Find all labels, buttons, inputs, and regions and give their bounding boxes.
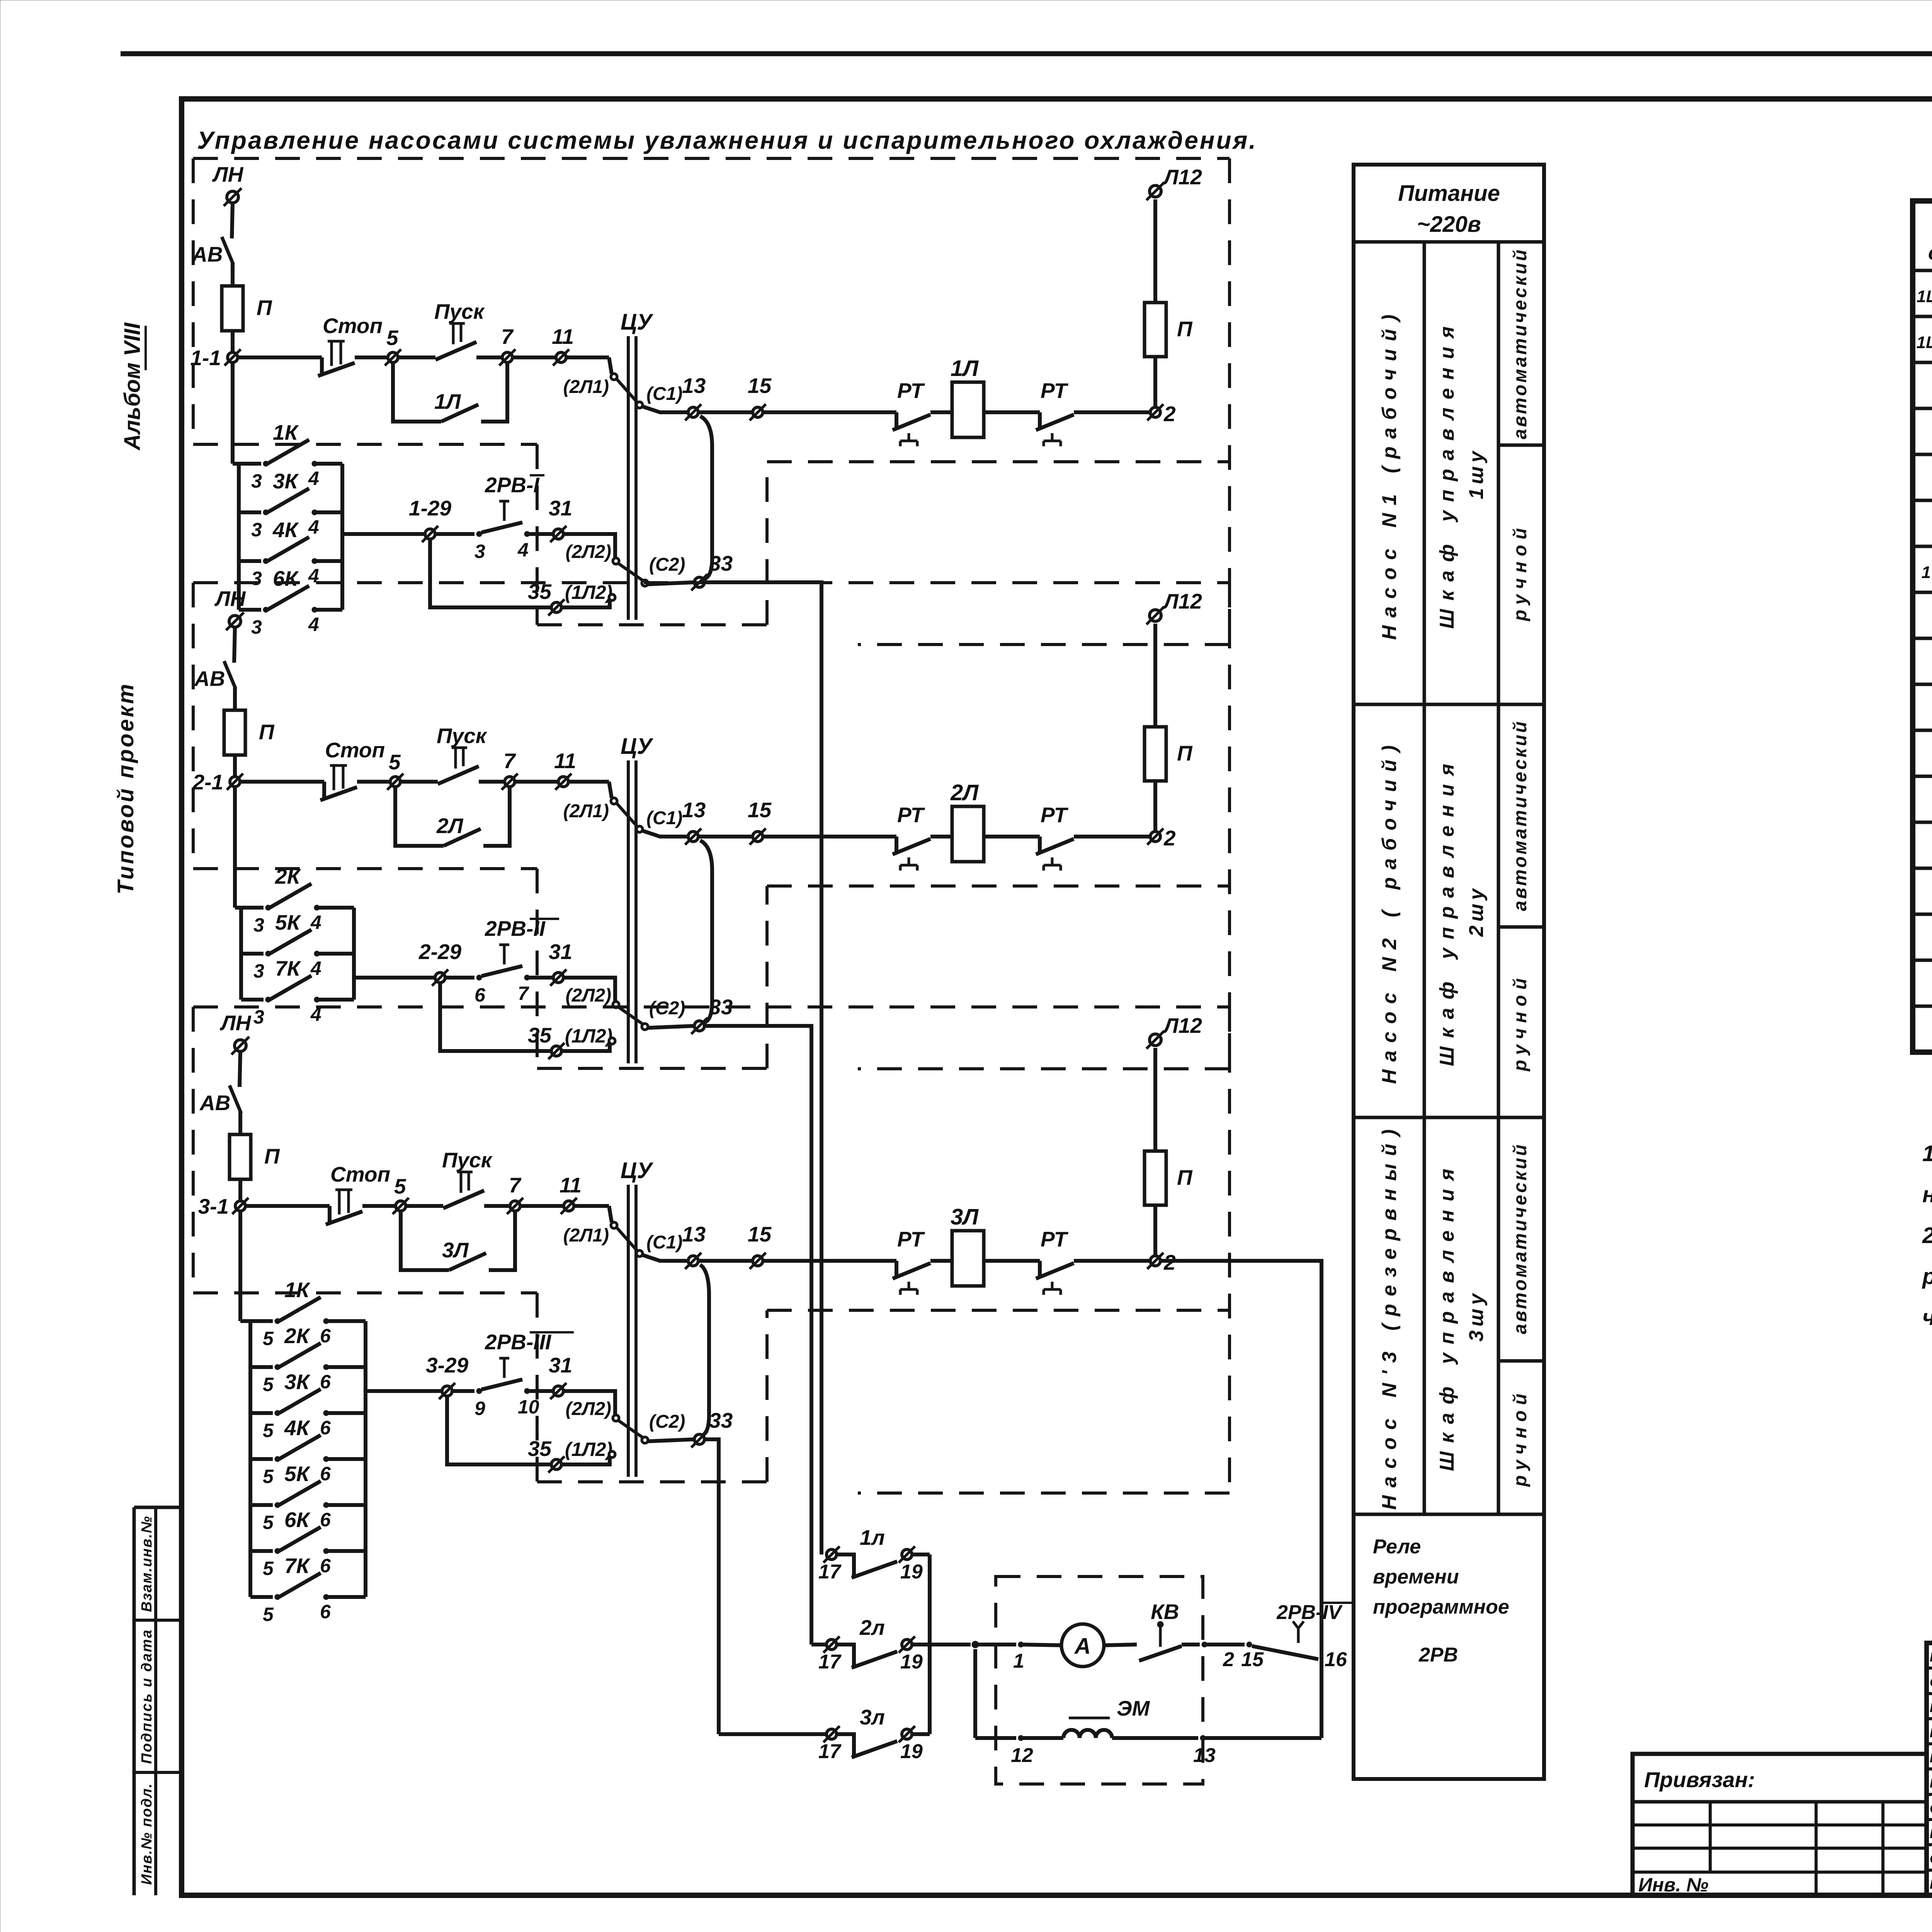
svg-text:19: 19 — [900, 1561, 923, 1583]
svg-text:3Л: 3Л — [951, 1204, 979, 1230]
wire — [484, 1204, 510, 1208]
node (2Л2) (block 2) — [613, 1002, 619, 1008]
wire — [233, 687, 237, 710]
svg-text:1ШУ...3ШУ: 1ШУ...3ШУ — [1917, 287, 1932, 306]
wire — [698, 835, 753, 838]
terminal 31 (block 3) — [553, 1386, 563, 1396]
node (2Л1) (block 2) — [611, 798, 617, 804]
time relay contact 2РВ-III (block 3) — [481, 1379, 522, 1389]
electromagnet winding ЭМ — [1063, 1730, 1112, 1738]
terminal 13 — [1200, 1735, 1206, 1741]
wire — [984, 1259, 1040, 1263]
svg-text:(2Л1): (2Л1) — [563, 377, 609, 397]
svg-text:(2Л1): (2Л1) — [563, 801, 609, 821]
holding contact 1Л (block 1) — [393, 362, 441, 422]
svg-text:П: П — [259, 720, 275, 744]
wire from 13 to 33 — [700, 840, 712, 1023]
svg-text:2-1: 2-1 — [192, 770, 224, 794]
wire — [1153, 199, 1157, 303]
wire — [763, 1259, 896, 1263]
node (2Л2) (block 3) — [613, 1415, 619, 1421]
svg-text:3Л: 3Л — [442, 1238, 469, 1262]
svg-text:П: П — [264, 1144, 280, 1168]
svg-text:(2Л1): (2Л1) — [563, 1225, 609, 1246]
cabinet ШУ-5102 dashed outline (block 3) — [193, 1005, 1230, 1009]
wire — [1153, 624, 1157, 727]
svg-text:9: 9 — [474, 1398, 485, 1419]
wire — [975, 1643, 1016, 1646]
wire — [354, 976, 435, 980]
terminal 11 (block 2) — [558, 777, 568, 787]
svg-text:Ст. техн.: Ст. техн. — [1930, 1852, 1932, 1866]
svg-text:15: 15 — [748, 798, 772, 822]
wire — [618, 1007, 643, 1024]
svg-text:ЛН: ЛН — [214, 587, 246, 611]
svg-text:Стоп: Стоп — [325, 738, 385, 762]
svg-text:автоматический: автоматический — [1510, 719, 1531, 911]
svg-text:2Л: 2Л — [950, 780, 979, 805]
signal lamp ЛН (block 1) — [227, 191, 238, 203]
cabinet ШУ-5102 dashed outline (block 1) — [193, 157, 1230, 160]
wire — [643, 406, 688, 412]
merge wire — [928, 1554, 932, 1734]
relay contact 3К (block 3) — [250, 1411, 273, 1415]
svg-text:Ст.инж.: Ст.инж. — [1930, 1801, 1932, 1816]
wire — [362, 1204, 396, 1208]
svg-text:35: 35 — [528, 1023, 552, 1047]
svg-text:15: 15 — [748, 374, 772, 398]
wire from 13 to 33 — [700, 1265, 709, 1436]
svg-text:1-1: 1-1 — [190, 346, 221, 370]
wire — [406, 1204, 443, 1208]
terminal 2-29 (block 2) — [435, 973, 445, 983]
svg-text:1: 1 — [1013, 1650, 1024, 1672]
svg-text:~220в: ~220в — [1417, 212, 1481, 237]
svg-text:1ТВ...7ТВ: 1ТВ...7ТВ — [1922, 563, 1932, 582]
wire — [1104, 1645, 1137, 1645]
svg-text:РТ: РТ — [897, 379, 925, 403]
terminal 11 (block 1) — [556, 352, 566, 362]
wire — [698, 410, 753, 414]
node (2Л1) (block 1) — [611, 374, 617, 380]
cabinet ШУ-5102 dashed outline (block 2) — [193, 581, 1230, 584]
svg-text:ЦУ: ЦУ — [621, 1158, 653, 1183]
relay contact 3К (block 1) — [239, 510, 261, 514]
svg-text:Шкаф управления: Шкаф управления — [1436, 755, 1458, 1066]
svg-text:17: 17 — [818, 1740, 842, 1763]
bus ЦУ (block 3) — [627, 1185, 630, 1477]
svg-text:Рук. сект.: Рук. сект. — [1930, 1726, 1932, 1740]
svg-text:2РВ-I: 2РВ-I — [485, 473, 540, 497]
time relay contact 2РВ-I (block 1) — [481, 522, 522, 532]
svg-text:Взам.инв.№: Взам.инв.№ — [139, 1515, 155, 1612]
relay contact 1К (block 1) — [239, 462, 261, 466]
wire — [1153, 1205, 1157, 1256]
time relay contact 2РВ-IV — [1252, 1646, 1318, 1659]
terminal 3-1 (block 3) — [235, 1201, 245, 1211]
svg-text:7: 7 — [501, 325, 514, 349]
wire — [648, 1439, 694, 1441]
svg-text:РТ: РТ — [897, 1227, 925, 1251]
wire — [240, 1051, 240, 1087]
svg-text:(С2): (С2) — [649, 554, 685, 575]
svg-text:Насос N1 (рабочий): Насос N1 (рабочий) — [1378, 307, 1401, 640]
wire — [617, 379, 637, 402]
terminal 2 — [1202, 1642, 1207, 1647]
wire — [476, 355, 503, 359]
svg-text:31: 31 — [549, 496, 572, 520]
wire — [512, 355, 556, 359]
svg-text:Л12: Л12 — [1162, 165, 1202, 189]
relay contact 4К (block 3) — [250, 1457, 273, 1461]
svg-text:обозн.: обозн. — [1928, 242, 1932, 264]
pushbutton Стоп (block 3) — [328, 1206, 332, 1224]
svg-text:19: 19 — [900, 1740, 923, 1763]
svg-text:(2Л2): (2Л2) — [566, 542, 611, 562]
attachment box — [1633, 1754, 1927, 1895]
svg-text:Шкаф управления: Шкаф управления — [1436, 1160, 1458, 1471]
contact 3л — [827, 1729, 837, 1739]
thermostat contact РТ (block 3) — [1038, 1261, 1042, 1277]
wire — [238, 1112, 242, 1134]
svg-text:5: 5 — [394, 1174, 406, 1198]
node (1Л2) (block 2) — [609, 1038, 615, 1044]
svg-text:2К: 2К — [284, 1324, 311, 1348]
svg-text:П: П — [1177, 317, 1193, 341]
svg-text:ЦУ: ЦУ — [621, 734, 653, 759]
svg-text:11: 11 — [560, 1173, 582, 1197]
svg-text:5К: 5К — [275, 910, 301, 934]
svg-text:ручной: ручной — [1510, 1388, 1531, 1487]
node (С2) (block 2) — [642, 1024, 648, 1030]
svg-text:Насос N'3 (резервный): Насос N'3 (резервный) — [1378, 1122, 1401, 1510]
svg-text:6: 6 — [320, 1371, 331, 1393]
svg-text:1-29: 1-29 — [409, 496, 451, 520]
wire — [561, 1458, 610, 1464]
svg-text:4К: 4К — [284, 1416, 311, 1440]
terminal 13 (block 3) — [688, 1256, 698, 1266]
svg-text:3: 3 — [253, 960, 264, 982]
svg-text:Инв. №: Инв. № — [1638, 1874, 1708, 1896]
svg-text:Альбом VIII: Альбом VIII — [120, 322, 145, 451]
legend column — [1354, 165, 1544, 1779]
svg-text:Вед. инж.: Вед. инж. — [1930, 1776, 1932, 1791]
svg-text:2: 2 — [1163, 826, 1176, 850]
wire — [561, 1044, 610, 1051]
svg-text:(1Л2): (1Л2) — [565, 1025, 612, 1047]
circuit breaker АВ (block 3) — [230, 1085, 241, 1113]
parts table — [1913, 201, 1932, 1052]
wire — [1074, 1259, 1151, 1263]
wire — [930, 1259, 952, 1263]
svg-text:(2Л2): (2Л2) — [566, 1399, 611, 1419]
terminal 15 (block 2) — [753, 832, 763, 842]
svg-text:3К: 3К — [273, 469, 299, 493]
fuse П right (block 2) — [1145, 727, 1166, 781]
signal lamp Л12 (block 2) — [1150, 610, 1161, 621]
svg-text:2-29: 2-29 — [418, 940, 461, 964]
relay coil 2Л (block 2) — [952, 806, 984, 862]
svg-text:2РВ-III: 2РВ-III — [485, 1330, 552, 1354]
sheet top trim line — [121, 51, 1932, 56]
svg-text:3шу: 3шу — [1465, 1290, 1488, 1342]
svg-text:Шкаф управления: Шкаф управления — [1436, 318, 1458, 629]
svg-text:5: 5 — [263, 1328, 274, 1349]
svg-text:АВ: АВ — [199, 1091, 230, 1115]
svg-text:Подпись и дата: Подпись и дата — [139, 1629, 155, 1764]
svg-text:Типовой проект: Типовой проект — [113, 682, 138, 895]
wire — [984, 410, 1040, 414]
wire — [930, 410, 952, 414]
terminal 2 (block 3) — [1150, 1256, 1160, 1266]
node (2Л2) (block 1) — [613, 558, 619, 564]
wire — [238, 1211, 242, 1321]
svg-text:Насос N2 ( рабочий): Насос N2 ( рабочий) — [1378, 738, 1401, 1084]
svg-text:3К: 3К — [284, 1370, 311, 1394]
svg-text:13: 13 — [682, 374, 706, 398]
svg-text:П: П — [1177, 1165, 1193, 1189]
svg-text:7К: 7К — [284, 1554, 311, 1578]
terminal 35 (block 2) — [551, 1046, 561, 1056]
relay coil 1Л (block 1) — [952, 382, 984, 437]
svg-text:31: 31 — [549, 940, 572, 964]
svg-text:4: 4 — [517, 539, 529, 561]
bus ЦУ (block 2) — [627, 760, 630, 1063]
svg-text:5: 5 — [263, 1558, 274, 1579]
terminal 7 (block 1) — [502, 352, 512, 362]
wire — [618, 1420, 643, 1437]
svg-text:АВ: АВ — [191, 242, 223, 266]
wire — [342, 532, 425, 536]
relay contact 4К (block 1) — [239, 559, 261, 563]
svg-text:6: 6 — [320, 1509, 331, 1531]
svg-text:РТ: РТ — [1041, 803, 1069, 827]
terminal 5 (block 2) — [390, 777, 400, 787]
terminal 3-29 (block 3) — [442, 1386, 452, 1396]
svg-text:1К: 1К — [273, 420, 299, 444]
wire 33 to time-relay circuit — [704, 1439, 719, 1734]
svg-text:2Л: 2Л — [436, 814, 464, 838]
svg-text:7К: 7К — [275, 956, 301, 980]
signal lamp ЛН (block 2) — [229, 616, 241, 627]
svg-text:2: 2 — [1163, 402, 1176, 426]
svg-text:2РВ-II: 2РВ-II — [485, 917, 546, 940]
wire — [1074, 410, 1151, 414]
terminal 31 (block 2) — [553, 973, 563, 983]
relay contact 5К (block 2) — [241, 952, 264, 956]
svg-text:Пуск: Пуск — [437, 724, 488, 748]
svg-text:КВ: КВ — [1151, 1600, 1179, 1624]
svg-text:Пуск: Пуск — [442, 1148, 493, 1172]
svg-text:3: 3 — [253, 1006, 264, 1028]
node (С2) (block 1) — [642, 580, 648, 586]
svg-text:5К: 5К — [284, 1462, 311, 1486]
terminal 7 (block 3) — [510, 1201, 520, 1211]
svg-text:4: 4 — [308, 516, 319, 538]
wire — [515, 780, 559, 784]
wire — [445, 976, 474, 980]
svg-text:2л: 2л — [859, 1616, 885, 1639]
svg-text:1К: 1К — [284, 1278, 311, 1302]
svg-text:1ЩУ...7ЩУ: 1ЩУ...7ЩУ — [1917, 333, 1932, 352]
svg-text:ную коммутацию согласно дан: ную коммутацию согласно данному чертежу. — [1922, 1182, 1932, 1207]
svg-text:ЛН: ЛН — [212, 162, 244, 186]
svg-text:35: 35 — [528, 1437, 552, 1461]
wire — [238, 1179, 242, 1201]
thermostat contact РТ (block 1) — [1038, 412, 1042, 429]
svg-text:1Л: 1Л — [951, 356, 979, 381]
svg-text:2РВ-IV: 2РВ-IV — [1276, 1601, 1343, 1624]
wire from block 3 to 2РВ supply — [1161, 1261, 1321, 1738]
svg-text:5: 5 — [263, 1466, 274, 1487]
ammeter A — [1061, 1624, 1104, 1667]
svg-text:времени: времени — [1373, 1566, 1459, 1588]
relay contact 6К (block 1) — [239, 608, 261, 612]
svg-text:Реле: Реле — [1373, 1536, 1421, 1558]
relay contact 7К (block 2) — [241, 998, 264, 1002]
svg-text:6: 6 — [320, 1325, 331, 1347]
svg-text:РТ: РТ — [897, 803, 925, 827]
svg-text:ру шкафа управления 1шу...: ру шкафа управления 1шу... 3шу, к которо… — [1922, 1264, 1932, 1289]
svg-text:Н.контр.: Н.контр. — [1930, 1650, 1932, 1665]
svg-text:6К: 6К — [284, 1508, 311, 1532]
node (С1) (block 3) — [636, 1250, 643, 1257]
svg-text:автоматический: автоматический — [1510, 248, 1531, 439]
pushbutton Стоп (block 1) — [320, 357, 324, 375]
terminal 1-1 (block 1) — [228, 352, 238, 362]
svg-text:ГИП: ГИП — [1930, 1701, 1932, 1715]
wire — [398, 355, 435, 359]
terminal 15 (block 1) — [753, 407, 763, 417]
svg-text:15: 15 — [1241, 1648, 1264, 1671]
svg-text:3: 3 — [251, 616, 262, 638]
wire to 2л contact — [811, 1643, 827, 1646]
svg-text:(С2): (С2) — [649, 1412, 685, 1432]
time relay 2РВ dashed box — [996, 1577, 1203, 1784]
svg-text:7: 7 — [518, 983, 529, 1004]
holding contact 3Л (block 3) — [401, 1211, 449, 1270]
svg-text:5: 5 — [386, 326, 399, 350]
relay contact ladder (block 1) — [237, 464, 241, 610]
title block — [1927, 1643, 1932, 1895]
pushbutton Стоп (block 2) — [322, 782, 326, 799]
svg-text:5: 5 — [263, 1604, 274, 1625]
circuit breaker АВ (block 1) — [222, 237, 233, 265]
svg-text:2РВ: 2РВ — [1418, 1644, 1458, 1666]
wire — [1182, 1643, 1200, 1646]
svg-text:3-29: 3-29 — [426, 1353, 468, 1377]
terminal 2 (block 1) — [1150, 407, 1160, 417]
terminal 15 — [1247, 1642, 1252, 1647]
terminal 31 (block 1) — [553, 529, 563, 539]
wire — [568, 780, 609, 784]
terminal 15 (block 3) — [753, 1256, 763, 1266]
wire — [1021, 1645, 1062, 1645]
wire — [245, 1204, 330, 1208]
wire — [912, 1553, 930, 1556]
svg-text:А: А — [1074, 1634, 1091, 1659]
wire — [231, 362, 235, 464]
svg-text:2шу: 2шу — [1465, 885, 1488, 937]
wire — [617, 803, 637, 827]
svg-text:7: 7 — [509, 1173, 522, 1197]
holding contact 2Л (block 2) — [395, 787, 444, 846]
relay contact ladder (block 2) — [239, 908, 243, 1000]
bus ЦУ (block 1) — [627, 336, 630, 620]
terminal 35 (block 3) — [551, 1459, 561, 1469]
terminal 13 (block 2) — [688, 832, 698, 842]
wire — [238, 355, 322, 359]
wire — [232, 203, 233, 238]
svg-text:ЦУ: ЦУ — [621, 310, 653, 335]
svg-text:2. Индексы перед маркировкой: 2. Индексы перед маркировкой проводов со… — [1922, 1223, 1932, 1248]
contact 1л — [827, 1549, 837, 1560]
terminal 2 (block 2) — [1150, 832, 1160, 842]
circuit breaker АВ (block 2) — [224, 661, 236, 689]
svg-text:6: 6 — [320, 1463, 331, 1485]
terminal 13 (block 1) — [688, 407, 698, 417]
svg-text:Управление насосами системы: Управление насосами системы увлажнения и… — [197, 126, 1257, 154]
terminal 33 (block 3) — [694, 1434, 704, 1444]
wire — [930, 835, 952, 838]
wire — [763, 835, 896, 838]
terminal 11 (block 3) — [564, 1201, 574, 1211]
signal lamp Л12 (block 1) — [1150, 185, 1161, 197]
svg-text:10: 10 — [518, 1396, 539, 1418]
svg-text:Л12: Л12 — [1162, 589, 1202, 613]
svg-text:П: П — [1177, 741, 1193, 765]
wire — [1153, 1048, 1157, 1151]
svg-text:12: 12 — [1011, 1744, 1033, 1767]
wire — [566, 355, 609, 359]
wire from 13 to 33 — [700, 416, 712, 579]
svg-text:Привязан:: Привязан: — [1644, 1767, 1755, 1792]
wire — [435, 532, 474, 536]
wire — [563, 534, 615, 558]
svg-text:31: 31 — [549, 1353, 572, 1377]
signal lamp ЛН (block 3) — [235, 1040, 246, 1051]
svg-text:РТ: РТ — [1041, 379, 1069, 403]
svg-text:2: 2 — [1223, 1648, 1234, 1671]
svg-text:Пуск: Пуск — [434, 299, 485, 323]
svg-text:6: 6 — [474, 984, 486, 1006]
wire — [973, 1649, 977, 1738]
svg-text:1.В шкафах управления 1шу ..: 1.В шкафах управления 1шу ...3шу выполни… — [1922, 1141, 1932, 1166]
svg-text:5: 5 — [263, 1374, 274, 1395]
wire — [648, 1026, 694, 1028]
svg-text:чаются .: чаются . — [1922, 1305, 1932, 1330]
svg-text:(2Л2): (2Л2) — [566, 985, 611, 1006]
contact 2л — [827, 1639, 837, 1650]
wire — [440, 983, 551, 1051]
svg-text:программное: программное — [1373, 1596, 1509, 1618]
wire — [563, 1391, 615, 1415]
svg-text:6: 6 — [320, 1555, 331, 1577]
svg-text:(С1): (С1) — [646, 1232, 682, 1253]
svg-text:5: 5 — [263, 1512, 274, 1533]
wire — [643, 831, 688, 837]
wire — [240, 780, 324, 784]
relay contact ladder (block 3) — [248, 1321, 252, 1597]
svg-text:4: 4 — [308, 468, 319, 489]
wire — [617, 1228, 637, 1251]
fuse П left (block 3) — [230, 1134, 251, 1179]
node (1Л2) (block 3) — [609, 1451, 615, 1458]
svg-text:Л12: Л12 — [1162, 1014, 1202, 1037]
svg-text:13: 13 — [682, 1222, 706, 1246]
signal lamp Л12 (block 3) — [1150, 1034, 1161, 1046]
wire — [1203, 1736, 1321, 1740]
